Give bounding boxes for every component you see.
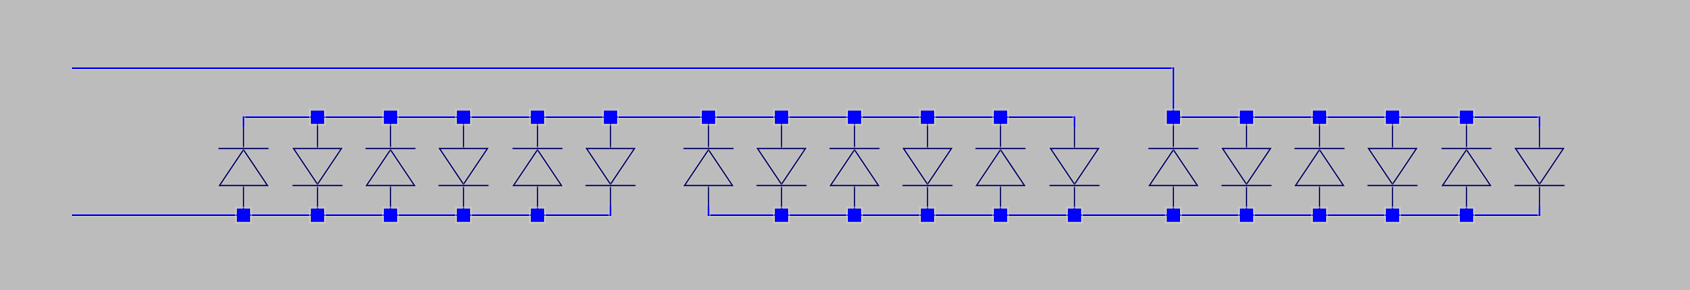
wire corner stub group3 diode6 top <box>1538 116 1542 127</box>
junction J8 <box>774 109 790 125</box>
junction J1 <box>1166 109 1182 125</box>
wire corner stub group3 diode6 bottom <box>1538 206 1542 216</box>
junction J3 <box>383 109 399 125</box>
junction J20 <box>530 207 546 223</box>
wire bottom rail group 1 <box>72 213 611 217</box>
wire bottom rail groups 2-3 <box>709 213 1540 217</box>
diode D10 <box>903 117 953 215</box>
junction J18 <box>383 207 399 223</box>
junction J11 <box>993 109 1009 125</box>
diode D16 <box>1368 117 1418 215</box>
wire corner stub group1 diode6 bottom <box>609 206 613 216</box>
diode D2 <box>293 117 343 215</box>
diode D5 <box>513 117 563 215</box>
diode D17 <box>1442 117 1492 215</box>
diode D9 <box>830 117 880 215</box>
diode D14 <box>1222 117 1272 215</box>
diode D12 <box>1050 117 1100 215</box>
junction J17 <box>310 207 326 223</box>
wire top rail groups 1-2 <box>244 115 1075 119</box>
junction J2 <box>310 109 326 125</box>
wire corner stub group2 diode6 top <box>1073 116 1077 127</box>
diode D1 <box>219 117 269 215</box>
junction J10 <box>920 109 936 125</box>
wire top net vertical drop <box>1171 67 1175 117</box>
junction J6 <box>603 109 619 125</box>
diode D6 <box>586 117 636 215</box>
junction J13 <box>1312 109 1328 125</box>
junction J14 <box>1385 109 1401 125</box>
junction J15 <box>1459 109 1475 125</box>
diode D15 <box>1295 117 1345 215</box>
junction J4 <box>456 109 472 125</box>
diode D13 <box>1148 117 1198 215</box>
diode D8 <box>757 117 807 215</box>
junction J24 <box>993 207 1009 223</box>
wire corner stub group1 diode1 top <box>242 116 246 127</box>
junction J22 <box>847 207 863 223</box>
junction J27 <box>1239 207 1255 223</box>
diode D3 <box>366 117 416 215</box>
junction J5 <box>530 109 546 125</box>
wire top net horizontal <box>72 66 1174 70</box>
wire top rail group 3 <box>1173 115 1539 119</box>
wire corner stub group2 diode1 bottom <box>707 206 711 216</box>
junction J23 <box>920 207 936 223</box>
junction J30 <box>1459 207 1475 223</box>
diode D11 <box>976 117 1026 215</box>
junction J28 <box>1312 207 1328 223</box>
junction J7 <box>701 109 717 125</box>
junction J16 <box>236 207 252 223</box>
junction J21 <box>774 207 790 223</box>
junction J9 <box>847 109 863 125</box>
junction J12 <box>1239 109 1255 125</box>
junction J25 <box>1067 207 1083 223</box>
diode D18 <box>1515 117 1565 215</box>
junction J29 <box>1385 207 1401 223</box>
diode D7 <box>684 117 734 215</box>
junction J19 <box>456 207 472 223</box>
junction J26 <box>1166 207 1182 223</box>
diode D4 <box>439 117 489 215</box>
